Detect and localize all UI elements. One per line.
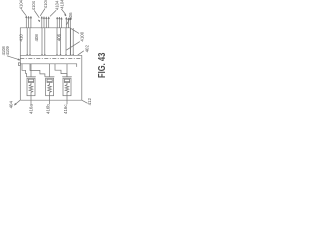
cell B element box: [47, 79, 52, 82]
cell A feed: [30, 64, 32, 77]
leader for label L2: [34, 11, 39, 18]
word line y=64: [20, 64, 76, 67]
cell B resistor zigzag: [48, 83, 52, 96]
svg-text:406: 406: [68, 12, 73, 20]
svg-text:4104: 4104: [43, 0, 48, 8]
leader from box corner to label R1: [70, 28, 79, 33]
cell C plate bar: [62, 76, 72, 78]
cell B feed: [49, 64, 51, 77]
staircase wire S0 to cell A: [22, 64, 26, 77]
leader for label M1: [67, 20, 69, 24]
bit line group G4 above box: [66, 18, 70, 28]
cell B element inner line: [47, 80, 52, 82]
svg-text:416a: 416a: [29, 104, 34, 114]
cell A element box: [28, 79, 33, 82]
cell B outer box: [46, 78, 54, 96]
svg-text:402: 402: [84, 45, 89, 53]
plate line (solid horizontal y=55.3): [20, 54, 82, 56]
bit line group G4 inside box: [66, 28, 73, 55]
svg-text:4104: 4104: [18, 0, 23, 9]
svg-text:416c: 416c: [63, 104, 68, 114]
cell A outer box: [27, 78, 35, 96]
svg-text:4100: 4100: [80, 31, 85, 41]
junction dots on plate line: [27, 54, 28, 55]
cell C bottom lead: [66, 96, 68, 105]
array box outline (stepped): [20, 28, 82, 100]
cell C element box: [64, 79, 69, 82]
staircase wire S2 to cell C: [55, 64, 67, 77]
leader for label L3: [40, 9, 45, 16]
cell A plate bar: [26, 76, 36, 78]
cell B bottom lead: [49, 96, 51, 105]
cell A bottom lead: [30, 96, 32, 105]
cell C outer box: [63, 78, 71, 96]
cell A element inner line: [28, 80, 33, 82]
cell C resistor zigzag: [65, 83, 69, 96]
leader for left label L6: [7, 56, 20, 60]
dash-dot boundary line y=58.4: [20, 57, 82, 59]
svg-text:4104: 4104: [59, 0, 64, 9]
svg-text:416b: 416b: [45, 104, 50, 114]
word line terminal box at left edge: [18, 63, 20, 66]
arrowhead of L6 leader: [18, 59, 20, 60]
svg-text:404: 404: [8, 101, 13, 109]
bit line group G3 above box: [57, 18, 61, 28]
cell B plate bar: [45, 76, 55, 78]
leader for label L1: [22, 10, 27, 16]
svg-text:4104: 4104: [31, 0, 36, 10]
cell C element inner line: [64, 80, 69, 82]
svg-text:FIG. 43: FIG. 43: [96, 53, 107, 78]
svg-text:406: 406: [56, 33, 61, 41]
bit line pair G2 inside box: [42, 28, 45, 55]
leader from label R1 to bit line: [66, 42, 80, 51]
leader for bottom-left label B0: [15, 100, 20, 104]
bit line group G1 above box: [26, 17, 31, 28]
staircase wire S1 to cell B: [30, 64, 45, 77]
cell A resistor zigzag: [29, 83, 33, 96]
bit line group G2 above box: [42, 18, 49, 28]
bit line pair G1 inside box: [27, 28, 30, 55]
bit line top arrowheads: [26, 16, 28, 18]
arrowhead of L2 leader: [38, 20, 40, 22]
arrowhead of B0 leader: [14, 103, 16, 105]
bit line pair G3 inside box: [57, 28, 61, 55]
leader for label L4: [50, 10, 56, 16]
arrowhead of L5 leader: [65, 14, 67, 16]
svg-text:412: 412: [87, 98, 92, 106]
svg-text:410: 410: [18, 34, 23, 42]
leader for bottom-right label B4: [82, 100, 88, 103]
svg-text:4109: 4109: [5, 46, 10, 56]
cell C feed: [66, 64, 68, 77]
svg-text:408: 408: [34, 34, 39, 42]
leader for label L5: [61, 9, 65, 15]
leader for label R2: [78, 51, 84, 55]
